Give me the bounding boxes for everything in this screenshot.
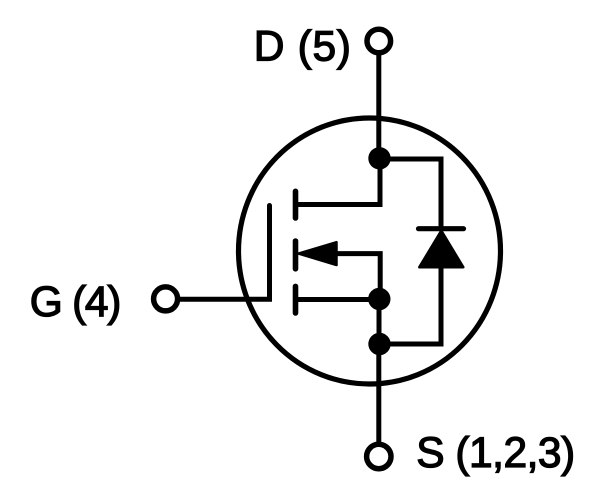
channel bar segment (drain) xyxy=(293,191,299,218)
wire between source junctions and down to terminal S xyxy=(377,299,382,344)
body diode D1 triangle (anode) xyxy=(419,231,463,268)
wire body connection (arrow base right then down to source-body junction) xyxy=(336,254,380,299)
terminal G (pin 4) xyxy=(154,287,178,311)
transistor envelope circle xyxy=(239,118,501,384)
wire drain internal (channel top to top junction) xyxy=(296,158,381,205)
body arrow (pointing left into channel) xyxy=(299,242,337,265)
terminal D (pin 5) xyxy=(367,29,391,53)
junction dot (drain node) xyxy=(368,147,390,169)
terminal S (pins 1,2,3) xyxy=(367,444,391,468)
svg-text:S (1,2,3): S (1,2,3) xyxy=(416,430,575,477)
channel bar segment (source) xyxy=(293,286,299,313)
junction dot (source-diode node) xyxy=(368,333,390,355)
wire source lead (junction to terminal S) xyxy=(376,344,381,443)
wire drain lead (terminal D to top junction) xyxy=(376,53,381,160)
wire diode anode down then left to source-diode junction xyxy=(380,265,442,344)
svg-text:G (4): G (4) xyxy=(30,279,120,326)
channel bar segment (body, middle) xyxy=(293,241,299,269)
wire gate lead (terminal G to gate bar) xyxy=(178,206,270,300)
junction dot (source-body node) xyxy=(368,288,390,310)
body diode cathode bar xyxy=(419,226,464,231)
svg-text:D (5): D (5) xyxy=(254,24,352,71)
wire source internal (channel bottom to source-body junction) xyxy=(296,297,380,302)
wire drain-to-diode branch (top junction right then down to cathode) xyxy=(380,159,442,229)
